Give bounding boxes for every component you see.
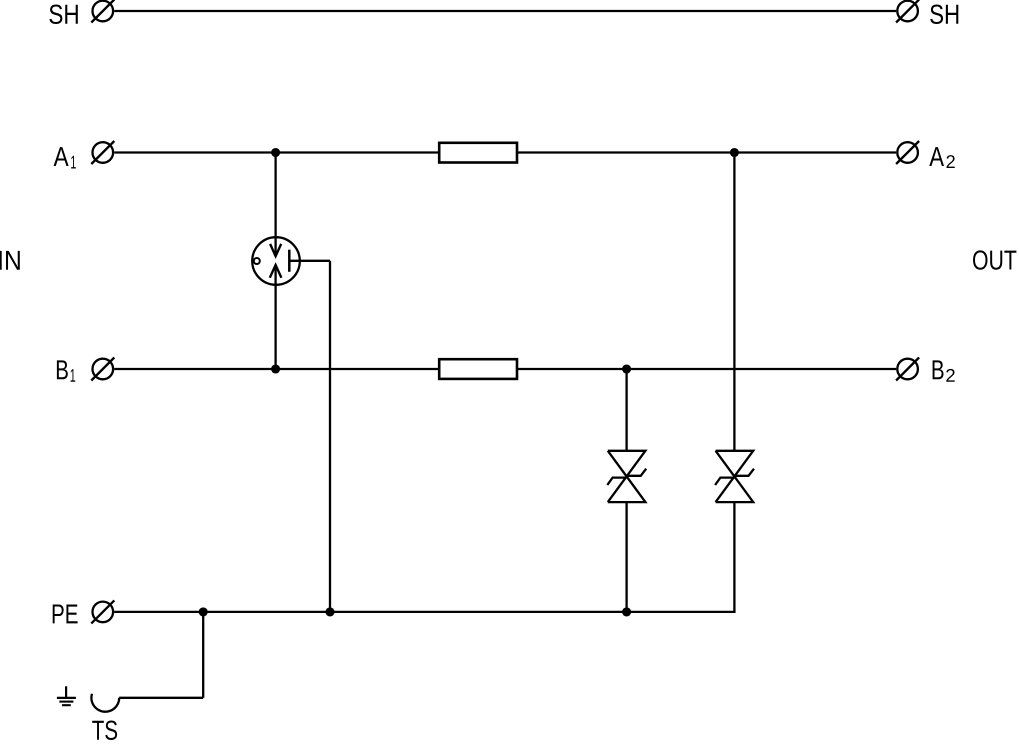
label SH (OUT side) bbox=[930, 5, 958, 24]
terminal SH (IN side) bbox=[93, 1, 114, 22]
terminal A1 bbox=[93, 142, 114, 163]
gas discharge tube F1: gas-filled indicator dot bbox=[254, 258, 260, 264]
label TS bbox=[92, 721, 117, 740]
node: V2 tap on A line bbox=[730, 148, 739, 157]
terminal B1 bbox=[93, 359, 114, 380]
resistor R1 (series decoupling element, A path) bbox=[439, 143, 517, 163]
wire: resistor R1 to A2 terminal bbox=[517, 151, 896, 153]
node: V1 on PE line bbox=[622, 607, 631, 616]
node: GDT tap on B line bbox=[271, 364, 280, 373]
wire: PE terminal to suppressor network bbox=[114, 611, 735, 613]
suppressor diode at x=734: bottom triangle bbox=[716, 476, 754, 502]
terminal B2 bbox=[897, 359, 918, 380]
node: GDT electrode on PE line bbox=[325, 607, 334, 616]
wire: B1 terminal to resistor R2 bbox=[114, 368, 439, 370]
wire: resistor R2 to B2 terminal bbox=[517, 368, 896, 370]
wire: A line down to gas discharge tube top electrode bbox=[274, 153, 276, 257]
label B2 bbox=[933, 360, 944, 379]
suppressor diode at x=734: zener bar hooks bbox=[715, 478, 734, 485]
label IN bbox=[0, 251, 20, 270]
wire: A1 terminal to resistor R1 bbox=[114, 151, 439, 153]
wire: B line down to suppressor diode V1 bbox=[625, 369, 627, 451]
gas discharge tube F1: third (ground) electrode bar bbox=[288, 250, 291, 272]
suppressor diode (bidirectional TVS) at x=627: top triangle bbox=[608, 451, 646, 477]
TS mounting-rail hook symbol bbox=[91, 694, 119, 712]
label B1 bbox=[57, 360, 68, 379]
resistor R2 (series decoupling element, B path) bbox=[439, 359, 517, 379]
terminal A2 bbox=[897, 142, 918, 163]
label A1 bbox=[54, 147, 69, 166]
label PE bbox=[53, 604, 78, 623]
wire: suppressor diode V2 down to PE corner bbox=[733, 502, 735, 613]
label SH (IN side) bbox=[49, 5, 77, 24]
wire: A line down to suppressor diode V2 (crosses B line) bbox=[733, 153, 735, 451]
wire: GDT ground electrode down to PE line (crosses B line) bbox=[329, 261, 331, 612]
suppressor diode (bidirectional TVS) at x=734: top triangle bbox=[716, 451, 754, 477]
wire: suppressor diode V1 down to PE line bbox=[625, 502, 627, 612]
gas discharge tube F1: top electrode arrowhead bbox=[270, 244, 281, 256]
gas discharge tube F1: bottom electrode arrowhead bbox=[270, 265, 282, 278]
wire: SH bus from IN to OUT bbox=[114, 10, 896, 12]
node: V1 tap on B line bbox=[622, 364, 631, 373]
node: GDT tap on A line bbox=[271, 148, 280, 157]
terminal PE bbox=[93, 602, 114, 623]
wire: PE line down to TS (rail) branch bbox=[202, 612, 204, 698]
suppressor diode at x=627: bottom triangle bbox=[608, 476, 646, 502]
label OUT bbox=[973, 250, 1016, 269]
wire: B line up to gas discharge tube bottom electrode bbox=[274, 265, 276, 369]
suppressor diode at x=627: zener bar hooks bbox=[607, 478, 626, 485]
label A2 bbox=[929, 147, 944, 166]
ground symbol at TS bbox=[65, 686, 67, 697]
gas discharge tube F1: envelope circle bbox=[252, 237, 300, 285]
wire: TS branch horizontal to rail hook bbox=[119, 697, 203, 699]
wire: GDT third electrode tap bbox=[291, 260, 331, 262]
terminal SH (OUT side) bbox=[897, 1, 918, 22]
node: TS branch on PE line bbox=[199, 607, 208, 616]
